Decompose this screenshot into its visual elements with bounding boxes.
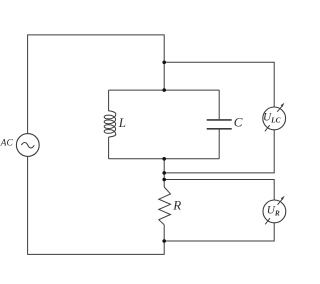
- resistor R: [159, 187, 171, 225]
- svg-text:ULC: ULC: [263, 112, 281, 125]
- svg-text:R: R: [172, 197, 181, 212]
- svg-text:L: L: [118, 115, 126, 130]
- wire: U_LC bottom to node: [164, 130, 274, 173]
- wire: U_R bottom to node: [164, 223, 274, 241]
- wire: node to U_R top: [164, 180, 274, 201]
- svg-text:C: C: [234, 114, 243, 129]
- capacitor C: [207, 120, 232, 129]
- voltmeter U_R: [263, 196, 286, 225]
- inductor L: [104, 111, 116, 137]
- voltmeter U_LC: [263, 103, 286, 132]
- wire: top from AC source to central node: [28, 35, 165, 134]
- svg-text:AC: AC: [0, 139, 13, 149]
- wire: inductor branch bottom: [108, 137, 110, 159]
- AC source: [16, 134, 39, 157]
- node: junction dots: [162, 61, 166, 243]
- wire: LC top rail: [109, 89, 220, 91]
- wire: LC bottom rail: [109, 158, 220, 160]
- wire: inductor branch top: [108, 90, 110, 111]
- wire: AC source bottom to bottom rail: [28, 156, 165, 254]
- wire: top node to U_LC top: [164, 62, 274, 107]
- wire: central vertical through nodes: [163, 159, 165, 187]
- wire: capacitor branch top: [218, 90, 220, 119]
- wire: resistor bottom to node: [163, 225, 165, 241]
- svg-text:UR: UR: [267, 205, 280, 218]
- wire: capacitor branch bottom: [218, 129, 220, 158]
